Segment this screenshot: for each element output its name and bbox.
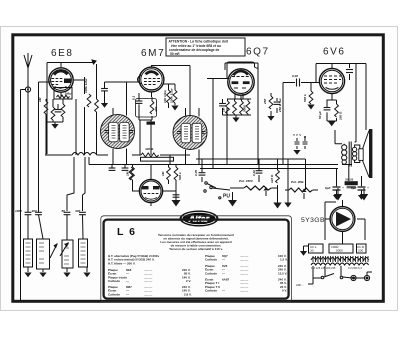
svg-text:30: 30 — [310, 249, 314, 253]
svg-text:0 2×300 6,3: 0 2×300 6,3 — [348, 266, 362, 270]
svg-text:Tension du secteur alternatif: Tension du secteur alternatif à 110 v. — [169, 247, 223, 251]
svg-text:6M7: 6M7 — [141, 48, 165, 59]
svg-text:5Y3GB: 5Y3GB — [301, 217, 325, 224]
svg-text:10k 1/2w: 10k 1/2w — [163, 90, 167, 103]
svg-text:Cathode: Cathode — [205, 289, 217, 293]
svg-text:0,02: 0,02 — [292, 74, 298, 78]
svg-text:300 Ω: 300 Ω — [145, 147, 154, 151]
svg-text:1,5 V.: 1,5 V. — [280, 258, 288, 262]
svg-text:120 Ω: 120 Ω — [270, 174, 274, 183]
svg-text:250 Ω: 250 Ω — [339, 111, 343, 121]
svg-text:2 V.: 2 V. — [186, 279, 191, 283]
svg-text:5000: 5000 — [336, 249, 343, 253]
svg-text:100k 1/2w: 100k 1/2w — [84, 78, 88, 93]
svg-text:110 125 145 220 245: 110 125 145 220 245 — [311, 266, 336, 270]
svg-text:0,05: 0,05 — [194, 170, 198, 176]
svg-text:400: 400 — [154, 107, 158, 113]
svg-text:Pot. 1500: Pot. 1500 — [239, 179, 253, 183]
svg-text:6μF: 6μF — [325, 186, 331, 190]
svg-text:H P S: H P S — [293, 133, 301, 137]
svg-text:6A87: 6A87 — [222, 278, 230, 282]
svg-text:+: + — [342, 186, 344, 190]
svg-text:12,5 V.: 12,5 V. — [278, 271, 287, 275]
svg-text:..........: .......... — [240, 271, 249, 275]
svg-text:1M: 1M — [126, 171, 130, 176]
svg-text:300: 300 — [32, 209, 37, 213]
svg-text:1M: 1M — [161, 171, 165, 176]
svg-text:1000: 1000 — [15, 209, 22, 213]
svg-text:6E8: 6E8 — [51, 48, 74, 59]
svg-text:1M: 1M — [38, 97, 42, 102]
svg-text:500 k: 500 k — [303, 94, 307, 102]
svg-text:200: 200 — [358, 249, 363, 253]
svg-text:+: + — [367, 186, 369, 190]
svg-text:0,02: 0,02 — [252, 170, 256, 176]
svg-text:6Q7: 6Q7 — [246, 47, 270, 58]
svg-text:Pot. 20Ω: Pot. 20Ω — [291, 180, 304, 184]
svg-text:..........: .......... — [144, 292, 153, 296]
svg-text:100k 1/2w: 100k 1/2w — [170, 88, 174, 103]
svg-text:1M: 1M — [222, 107, 226, 112]
svg-text:—: — — [126, 279, 129, 283]
svg-text:H.T. filtrée —: H.T. filtrée — 200 V. — [108, 261, 136, 265]
svg-text:50 mF.: 50 mF. — [170, 52, 180, 56]
svg-text:L 6: L 6 — [117, 226, 136, 238]
svg-text:50: 50 — [62, 209, 66, 213]
svg-text:0 V.: 0 V. — [282, 289, 287, 293]
svg-text:—: — — [222, 258, 225, 262]
svg-text:400: 400 — [74, 209, 80, 213]
svg-text:250 k ½w: 250 k ½w — [278, 98, 282, 113]
svg-text:20h...: 20h... — [296, 283, 304, 287]
svg-text:—: — — [222, 289, 225, 293]
svg-text:..........: .......... — [240, 289, 249, 293]
svg-text:PU: PU — [223, 194, 230, 200]
svg-text:0,1: 0,1 — [132, 95, 136, 100]
svg-text:Cathode: Cathode — [205, 258, 217, 262]
svg-text:2,8 V.: 2,8 V. — [184, 292, 192, 296]
svg-text:—: — — [126, 292, 129, 296]
svg-text:Cathode: Cathode — [108, 292, 120, 296]
svg-text:Cathode: Cathode — [205, 271, 217, 275]
svg-text:250: 250 — [263, 99, 267, 105]
svg-text:1Mω: 1Mω — [65, 92, 72, 96]
svg-text:Cathode: Cathode — [108, 279, 120, 283]
svg-text:500 k: 500 k — [178, 172, 182, 180]
svg-text:..........: .......... — [144, 279, 153, 283]
svg-text:50 μF: 50 μF — [318, 111, 322, 119]
svg-text:50103: 50103 — [345, 178, 353, 182]
svg-text:..........: .......... — [240, 258, 249, 262]
svg-text:—: — — [222, 271, 225, 275]
svg-text:6V6: 6V6 — [323, 47, 346, 58]
svg-text:5000: 5000 — [243, 105, 247, 112]
svg-text:8μF: 8μF — [351, 186, 357, 190]
